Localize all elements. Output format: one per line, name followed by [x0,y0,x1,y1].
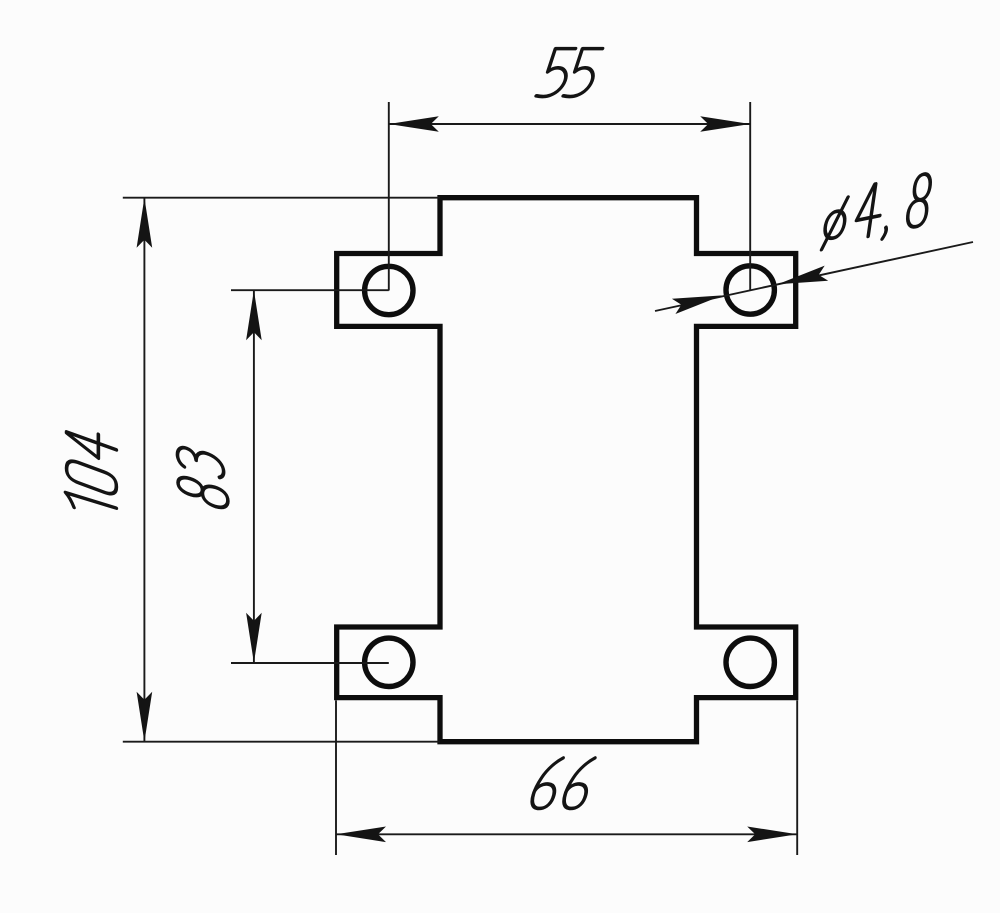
dim 55: left extension/centre line [388,102,390,291]
dim 66: right extension line [796,700,798,855]
hole bottom-left [365,638,413,686]
dim 104: top extension line [123,197,440,199]
dim 66: left arrow [336,827,386,843]
dim 66: dimension line [336,833,797,835]
dim 83: dimension line [253,290,255,663]
dia 4,8: left arrow [672,295,723,314]
dim 104: top arrow [137,198,153,248]
dim 55: value text [536,49,603,97]
dia 4,8: leader line [655,242,973,311]
hole top-right [726,266,774,314]
hole top-left [365,266,413,314]
dim 104: dimension line [143,198,145,742]
dim 55: left arrow [389,116,439,132]
dim 66: value text [529,758,597,808]
dia 4,8: value text [821,173,931,252]
dim 55: right extension/centre line [749,102,751,290]
dim 83: value text [177,445,227,511]
hole bottom-right [726,638,774,686]
dim 83: bottom arrow [246,613,262,663]
dim 55: dimension line [389,123,750,125]
dim 66: right arrow [747,827,797,843]
dim 104: bottom arrow [137,692,153,742]
dim 66: left extension line [335,700,337,855]
part outline (plate with four tabs) [337,198,796,742]
dia 4,8: right arrow [778,266,829,285]
dim 83: bottom extension line [231,662,389,664]
dim 104: bottom extension line [123,741,440,743]
dim 104: value text [66,424,117,520]
dim 83: top arrow [246,290,262,340]
dim 83: top extension line [231,289,389,291]
dim 55: right arrow [700,116,750,132]
